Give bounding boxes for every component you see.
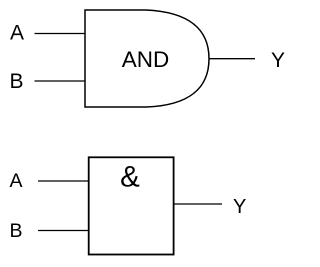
svg-text:B: B — [10, 70, 24, 93]
svg-text:B: B — [10, 220, 23, 242]
svg-text:AND: AND — [122, 47, 170, 72]
svg-text:A: A — [10, 22, 24, 45]
svg-text:Y: Y — [233, 196, 246, 218]
svg-text:&: & — [120, 160, 140, 193]
svg-text:Y: Y — [271, 49, 285, 72]
svg-text:A: A — [10, 170, 23, 192]
